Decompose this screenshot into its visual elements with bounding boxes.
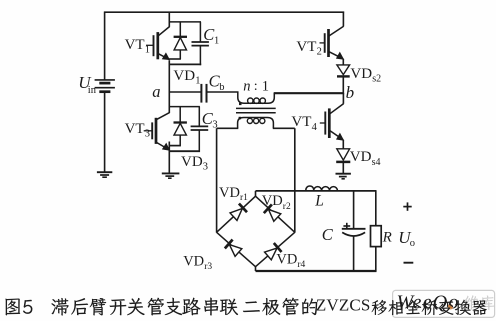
diode VDr2 [264, 204, 281, 221]
wire top rail [104, 11, 344, 13]
svg-text:R: R [382, 230, 392, 246]
wire VD1 inner return [169, 58, 181, 60]
wire VT3 block right upper [198, 107, 200, 127]
svg-text:in: in [88, 85, 97, 96]
resistor R [371, 226, 382, 247]
diode VD1 (antiparallel) [179, 22, 181, 37]
svg-text:3: 3 [203, 162, 208, 173]
svg-text:L: L [314, 192, 324, 209]
svg-text:VD: VD [350, 66, 372, 82]
svg-text:VD: VD [350, 149, 372, 165]
transformer T1 secondary winding [238, 118, 274, 129]
wire secondary right [273, 127, 295, 129]
svg-text:2: 2 [317, 47, 322, 58]
diode VDs2 (series) [337, 65, 350, 75]
wire VT4 collector drop [342, 93, 344, 104]
wire secondary left [217, 127, 239, 129]
wire VT1 collector drop [168, 12, 170, 27]
inductor L [306, 186, 338, 191]
wire VT3 block top [169, 106, 200, 108]
ground (Uin leg) [97, 171, 112, 173]
svg-text:VD: VD [183, 253, 204, 269]
capacitor C plus sign [343, 225, 350, 227]
capacitor C (electrolytic) [342, 228, 366, 230]
svg-text:4: 4 [312, 122, 318, 133]
wire R branch top [375, 191, 377, 226]
wire VT3 emitter to ground [168, 142, 170, 173]
diode VDr3 [225, 240, 242, 257]
wire output bottom rail [256, 270, 377, 272]
diode VD3 (antiparallel) [179, 107, 181, 123]
transformer T1 primary winding [238, 92, 274, 104]
transistor VT2 (IGBT) [320, 42, 325, 44]
output minus sign [404, 262, 414, 264]
wire Uin bottom [104, 92, 106, 172]
svg-text:VD: VD [262, 193, 283, 209]
wire VT1 block right lower [199, 46, 201, 66]
wire leg-a mid rail [168, 60, 170, 113]
svg-text:n: n [243, 78, 250, 94]
svg-text:a: a [152, 82, 160, 101]
wire R branch bottom [375, 247, 377, 272]
diode VDs4 (series) [337, 149, 350, 160]
wire bridge bottom riser [255, 266, 257, 271]
diode VDr4 [264, 243, 281, 260]
svg-text:r2: r2 [283, 202, 291, 212]
svg-text:r3: r3 [204, 262, 212, 272]
capacitor C1 [192, 41, 209, 43]
transformer polarity dot (primary) [239, 103, 242, 106]
transistor VT1 (IGBT) [146, 44, 154, 46]
wire VT1 block top [169, 21, 201, 23]
wire bridge diagonal TR [256, 196, 295, 232]
svg-text:1: 1 [195, 75, 200, 86]
wire Cb to transformer [207, 91, 239, 93]
svg-text:b: b [346, 83, 355, 102]
wire output top [256, 190, 377, 192]
battery Uin [95, 79, 115, 81]
caption CJK glyphs [5, 298, 487, 316]
wire bridge diagonal BL [217, 232, 256, 266]
transistor VT3 (IGBT) [144, 130, 153, 132]
wire VT1 block bottom (cap return) [169, 63, 202, 65]
output plus sign [403, 206, 411, 208]
svg-text:1: 1 [214, 36, 219, 47]
diode VDr1 [229, 204, 246, 221]
svg-text:VD: VD [219, 185, 240, 201]
capacitor Cb [200, 84, 202, 103]
svg-text:s2: s2 [372, 74, 381, 85]
wire Uin top drop [104, 12, 106, 81]
wire C branch top [353, 191, 355, 229]
wire VT2 collector drop [342, 12, 344, 27]
ground (VDs4 leg) [336, 173, 351, 175]
svg-text:b: b [219, 82, 224, 93]
svg-text:s4: s4 [372, 157, 381, 168]
wire VD3 inner return [169, 145, 181, 147]
capacitor C3 [191, 125, 209, 127]
svg-text::: : [254, 79, 258, 94]
svg-text:VD: VD [173, 68, 195, 84]
transformer polarity dot (secondary) [239, 117, 242, 120]
watermark [393, 290, 495, 317]
svg-text:C: C [322, 225, 334, 244]
wire VT2 emitter [342, 59, 344, 65]
transformer core [236, 107, 276, 109]
svg-text:1: 1 [262, 78, 269, 94]
svg-text:VT: VT [296, 39, 316, 55]
svg-text:VD: VD [181, 154, 203, 170]
wire node a to Cb [169, 91, 201, 93]
svg-text:o: o [410, 238, 415, 249]
wire VT1 block right upper [199, 22, 201, 42]
wire VT3 block right lower [198, 130, 200, 152]
svg-text:1: 1 [145, 45, 150, 56]
svg-text:3: 3 [145, 129, 150, 140]
svg-text:VT: VT [125, 121, 145, 137]
svg-text:r1: r1 [240, 193, 248, 203]
wire bridge diagonal TL [217, 196, 256, 232]
svg-text:VT: VT [125, 37, 145, 53]
svg-text:r4: r4 [297, 260, 305, 270]
wire VT4 emitter [342, 140, 344, 149]
svg-text:VD: VD [276, 252, 297, 268]
wire VT3 block bottom (cap return) [169, 150, 200, 152]
wire bridge top riser [255, 191, 257, 197]
transistor VT4 (IGBT) [320, 122, 326, 124]
wire b thick [274, 92, 344, 94]
svg-text:ZVZCS: ZVZCS [316, 295, 371, 314]
wire bridge diagonal BR [256, 232, 295, 266]
ground (VT3 leg) [162, 172, 180, 174]
